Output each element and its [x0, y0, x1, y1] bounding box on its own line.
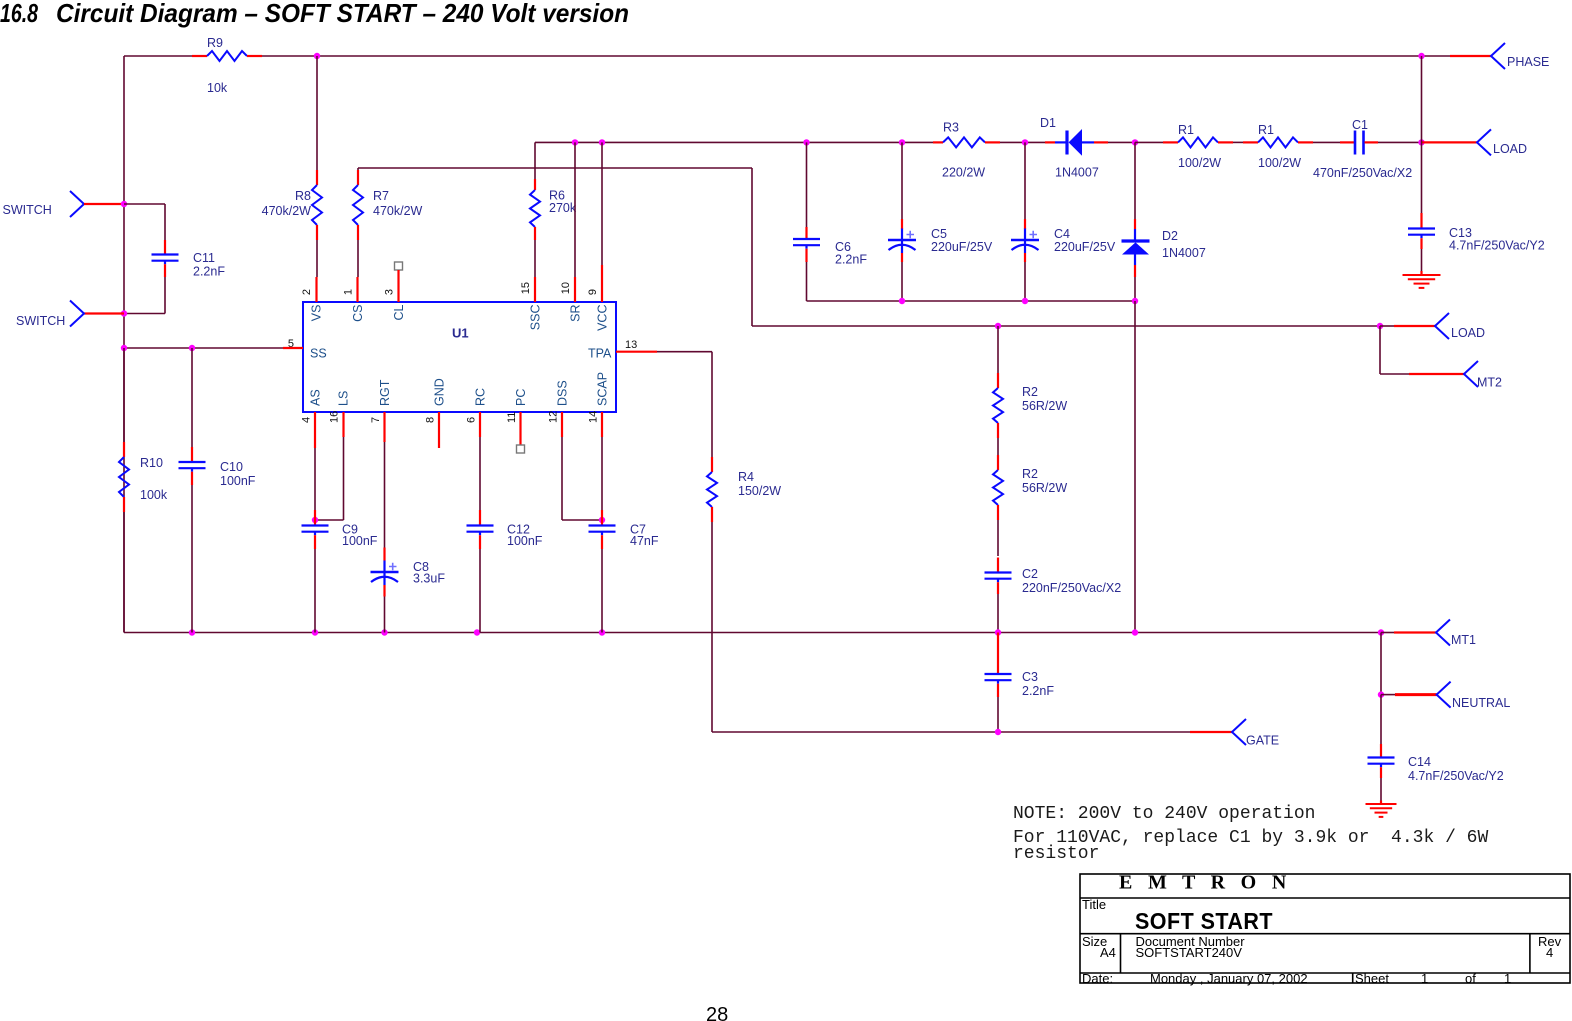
svg-text:15: 15	[520, 282, 532, 294]
U1 pin number 10	[560, 282, 572, 294]
svg-text:U1: U1	[452, 326, 469, 341]
svg-text:CS: CS	[351, 305, 365, 322]
svg-text:NOTE: 200V to 240V operation: NOTE: 200V to 240V operation	[1013, 804, 1315, 824]
svg-text:Circuit Diagram – SOFT START –: Circuit Diagram – SOFT START – 240 Volt …	[56, 0, 629, 28]
svg-text:VCC: VCC	[596, 305, 610, 331]
svg-text:150/2W: 150/2W	[738, 484, 781, 498]
svg-text:100/2W: 100/2W	[1258, 156, 1301, 170]
wire top bus R9 to PHASE corner	[262, 55, 1450, 57]
svg-text:3.3uF: 3.3uF	[413, 572, 445, 586]
title block sheet total 1	[1504, 971, 1511, 986]
title block Date label	[1082, 971, 1113, 986]
U1 pin number 3	[384, 289, 396, 295]
svg-text:100k: 100k	[140, 488, 168, 502]
port NEUTRAL	[1381, 682, 1510, 710]
diode D1	[1040, 116, 1135, 180]
svg-text:VS: VS	[310, 305, 324, 322]
port LOAD upper	[1422, 129, 1528, 156]
svg-text:R2: R2	[1022, 385, 1038, 399]
U1 pin number 5	[288, 338, 294, 350]
title block title SOFT START	[1135, 908, 1273, 934]
title block document number	[1136, 945, 1243, 960]
svg-text:56R/2W: 56R/2W	[1022, 481, 1067, 495]
wire U1 pin 14 SCAP	[601, 412, 603, 510]
capacitor C1	[1313, 118, 1422, 180]
wire MT2 branch	[1380, 326, 1409, 374]
port LOAD lower	[1380, 313, 1485, 340]
U1 pin name CS	[351, 305, 365, 322]
svg-text:2.2nF: 2.2nF	[193, 265, 225, 279]
U1 pin number 12	[548, 411, 560, 423]
U1 pin number 7	[370, 417, 382, 423]
node junction SR rail	[572, 139, 578, 145]
svg-text:1N4007: 1N4007	[1162, 246, 1206, 260]
capacitor C11	[152, 240, 226, 279]
node junction MT1 bus / C12	[474, 629, 480, 635]
U1 pin number 9	[587, 289, 599, 295]
wire switch upper to C11	[124, 204, 165, 240]
node junction bottom D2	[1132, 298, 1138, 304]
svg-text:R7: R7	[373, 189, 389, 203]
svg-text:R8: R8	[295, 189, 311, 203]
svg-text:8: 8	[425, 417, 437, 423]
node junction MT1 bus / C7	[599, 629, 605, 635]
node junction MT1 bus / C2 C3	[995, 629, 1001, 635]
wire R7 to U1 pin 1	[357, 240, 360, 302]
wire R3 to C4 node	[1000, 141, 1045, 143]
title block of label	[1465, 971, 1476, 986]
wire VCC rail	[535, 141, 933, 143]
title block rev 4	[1546, 945, 1553, 960]
title block date value	[1150, 971, 1308, 986]
svg-text:4.7nF/250Vac/Y2: 4.7nF/250Vac/Y2	[1449, 239, 1545, 253]
svg-text:Title: Title	[1082, 897, 1106, 912]
svg-text:RGT: RGT	[378, 379, 392, 406]
ground symbol at C13	[1403, 275, 1441, 288]
wire stub U1 pin 3	[397, 270, 399, 302]
svg-text:270k: 270k	[549, 201, 577, 215]
node junction AS LS	[312, 517, 318, 523]
svg-text:SSC: SSC	[529, 305, 543, 331]
node junction MT1 bus / C8	[381, 629, 387, 635]
svg-text:R9: R9	[207, 36, 223, 50]
wire capacitor group bottom bus	[807, 300, 1136, 302]
node junction switch upper / left rail	[121, 201, 127, 207]
svg-text:of: of	[1465, 971, 1476, 986]
svg-text:SS: SS	[310, 347, 327, 361]
svg-text:GND: GND	[433, 378, 447, 406]
capacitor C13	[1408, 213, 1545, 275]
svg-text:470nF/250Vac/X2: 470nF/250Vac/X2	[1313, 166, 1412, 180]
svg-text:C2: C2	[1022, 567, 1038, 581]
wire U1 pin 16 LS	[315, 412, 344, 520]
page title text	[0, 0, 629, 28]
node junction bottom C5	[899, 298, 905, 304]
svg-text:4.7nF/250Vac/Y2: 4.7nF/250Vac/Y2	[1408, 769, 1504, 783]
node junction rail / D2	[1132, 139, 1138, 145]
U1 pin name VCC	[596, 305, 610, 331]
wire top bus left of R9	[124, 55, 192, 57]
svg-text:220nF/250Vac/X2: 220nF/250Vac/X2	[1022, 581, 1121, 595]
U1 pin name GND	[433, 378, 447, 406]
node junction rail / C5	[899, 139, 905, 145]
svg-text:SOFT START: SOFT START	[1135, 908, 1273, 934]
U1 pin name TPA	[588, 347, 612, 361]
resistor R3	[933, 121, 1000, 180]
svg-text:Sheet: Sheet	[1355, 971, 1389, 986]
svg-text:470k/2W: 470k/2W	[373, 204, 423, 218]
U1 pin name AS	[309, 389, 323, 406]
U1 pin number 2	[301, 289, 313, 295]
svg-text:11: 11	[506, 412, 518, 423]
U1 pin name LS	[337, 391, 351, 406]
title block Document Number label	[1136, 934, 1246, 949]
port SWITCH lower	[16, 301, 124, 329]
node junction SS / left rail	[121, 345, 127, 351]
svg-text:6: 6	[466, 417, 478, 423]
title block Rev label	[1538, 934, 1562, 949]
svg-text:28: 28	[706, 1004, 728, 1021]
node junction LOAD rail / R2	[995, 323, 1001, 329]
svg-text:C4: C4	[1054, 227, 1070, 241]
U1 pin name SS	[310, 347, 327, 361]
wire top bus down to C13	[1421, 56, 1423, 213]
svg-text:4: 4	[1546, 945, 1553, 960]
svg-text:A4: A4	[1100, 945, 1116, 960]
U1 pin name RGT	[378, 379, 392, 406]
node junction MT1 bus / D2 branch	[1132, 629, 1138, 635]
wire U1 pin 12 DSS	[562, 412, 602, 520]
note text line 2	[1013, 828, 1488, 848]
wire R8 to U1 pin 2	[316, 240, 319, 302]
svg-text:1: 1	[343, 289, 355, 295]
capacitor C7	[589, 510, 659, 633]
svg-text:3: 3	[384, 289, 396, 295]
title block Sheet label	[1355, 971, 1389, 986]
svg-text:SWITCH: SWITCH	[16, 314, 65, 328]
node junction C1 / C13 branch	[1418, 139, 1424, 145]
resistor R9	[192, 36, 262, 95]
node junction LOAD rail / MT2 branch	[1377, 323, 1383, 329]
U1 pin name SCAP	[596, 372, 610, 406]
title block sheet 1	[1421, 971, 1428, 986]
port SWITCH upper	[3, 191, 125, 217]
wire vertical down to LOAD rail	[751, 168, 753, 326]
title block frame	[1080, 874, 1570, 983]
svg-text:LOAD: LOAD	[1493, 142, 1527, 156]
svg-text:R2: R2	[1022, 467, 1038, 481]
svg-text:1: 1	[1421, 971, 1428, 986]
U1 pin number 16	[329, 411, 341, 423]
wire MT1 node down to NEUTRAL	[1380, 633, 1382, 695]
diode D2	[1122, 142, 1206, 301]
wire SR to U1 pin 10	[574, 142, 576, 302]
svg-text:100nF: 100nF	[220, 474, 256, 488]
wire GATE rail	[712, 731, 1190, 733]
node junction MT1 bus / C10	[189, 629, 195, 635]
no-connect square CL pin 3	[395, 262, 403, 270]
svg-text:SR: SR	[569, 305, 583, 322]
svg-text:AS: AS	[309, 389, 323, 406]
svg-text:4: 4	[301, 417, 313, 423]
wire R7 top rail to VCC corner	[358, 167, 752, 169]
capacitor C12	[467, 510, 543, 633]
port MT2	[1409, 361, 1502, 390]
svg-text:10k: 10k	[207, 81, 228, 95]
svg-text:C1: C1	[1352, 118, 1368, 132]
title block size A4	[1100, 945, 1116, 960]
svg-text:220uF/25V: 220uF/25V	[1054, 240, 1116, 254]
svg-text:PHASE: PHASE	[1507, 55, 1549, 69]
svg-text:2.2nF: 2.2nF	[835, 253, 867, 267]
svg-text:LOAD: LOAD	[1451, 326, 1485, 340]
resistor R2 lower	[993, 438, 1067, 520]
svg-text:16.8: 16.8	[0, 0, 38, 28]
svg-text:resistor: resistor	[1013, 844, 1099, 864]
node junction top bus / C13 branch	[1418, 53, 1424, 59]
wire U1 pin 13 TPA	[616, 351, 712, 353]
svg-text:R1: R1	[1178, 123, 1194, 137]
node junction bottom C4	[1022, 298, 1028, 304]
svg-text:100/2W: 100/2W	[1178, 156, 1221, 170]
capacitor C6	[793, 142, 867, 301]
resistor R1 second	[1233, 123, 1313, 170]
svg-text:SCAP: SCAP	[596, 372, 610, 406]
svg-text:7: 7	[370, 417, 382, 423]
wire top bus to R8	[316, 56, 318, 170]
svg-text:Date:: Date:	[1082, 971, 1113, 986]
node junction MT1 bus / C9	[312, 629, 318, 635]
U1 pin number 13	[625, 339, 637, 351]
svg-text:56R/2W: 56R/2W	[1022, 399, 1067, 413]
wire U1 pin 7 RGT	[383, 412, 385, 548]
svg-text:220/2W: 220/2W	[942, 166, 985, 180]
svg-text:C10: C10	[220, 460, 243, 474]
wire U1 pin 6 RC	[479, 412, 481, 510]
svg-text:14: 14	[588, 411, 600, 423]
svg-text:E M T R O N: E M T R O N	[1119, 872, 1292, 894]
svg-text:10: 10	[560, 282, 572, 294]
svg-text:1: 1	[1504, 971, 1511, 986]
wire VCC to U1 pin 9	[601, 142, 603, 302]
svg-text:TPA: TPA	[588, 347, 612, 361]
svg-text:MT1: MT1	[1451, 633, 1476, 647]
wire C11 to switch lower	[124, 277, 165, 314]
svg-text:2: 2	[301, 289, 313, 295]
U1 pin name VS	[310, 305, 324, 322]
node junction MT1 bus / MT1 port	[1378, 629, 1384, 635]
port MT1	[1381, 620, 1476, 648]
svg-text:R4: R4	[738, 470, 754, 484]
U1 pin name DSS	[556, 380, 570, 406]
svg-text:R10: R10	[140, 456, 163, 470]
svg-text:100nF: 100nF	[342, 534, 378, 548]
svg-text:C11: C11	[193, 251, 215, 265]
svg-text:PC: PC	[514, 389, 528, 406]
svg-text:16: 16	[329, 411, 341, 423]
node junction switch lower / left rail	[121, 310, 127, 316]
wire VCC rail corner to R6	[534, 142, 536, 179]
svg-text:GATE: GATE	[1246, 734, 1279, 748]
node junction SS / C10	[189, 345, 195, 351]
svg-text:47nF: 47nF	[630, 534, 659, 548]
svg-text:C3: C3	[1022, 670, 1038, 684]
svg-text:C5: C5	[931, 227, 947, 241]
title block Title label	[1082, 897, 1106, 912]
node junction top bus / R8	[314, 53, 320, 59]
U1 pin number 6	[466, 417, 478, 423]
U1 pin number 14	[588, 411, 600, 423]
svg-text:12: 12	[548, 411, 560, 423]
svg-text:9: 9	[587, 289, 599, 295]
svg-text:CL: CL	[392, 304, 406, 320]
resistor R1 first	[1135, 123, 1233, 170]
node junction DSS SCAP	[599, 517, 605, 523]
node junction GATE rail / C3	[995, 729, 1001, 735]
U1 pin number 11	[506, 412, 518, 423]
svg-text:470k/2W: 470k/2W	[262, 204, 312, 218]
wire D2 node down to MT1 bus	[1134, 301, 1136, 633]
port PHASE	[1450, 43, 1549, 69]
capacitor C4	[1011, 142, 1116, 301]
svg-text:220uF/25V: 220uF/25V	[931, 240, 993, 254]
U1 pin name PC	[514, 389, 528, 406]
resistor R2 upper	[993, 326, 1067, 438]
svg-text:DSS: DSS	[556, 380, 570, 406]
node junction rail / C4	[1022, 139, 1028, 145]
resistor R7	[353, 168, 423, 240]
wire left vertical rail	[123, 56, 125, 633]
U1 pin number 8	[425, 417, 437, 423]
resistor R4	[707, 352, 781, 522]
capacitor C14	[1368, 695, 1504, 804]
page number	[706, 1004, 728, 1021]
note text line 3	[1013, 844, 1099, 864]
svg-text:MT2: MT2	[1477, 376, 1502, 390]
svg-text:1N4007: 1N4007	[1055, 166, 1099, 180]
no-connect square PC pin 11	[517, 445, 525, 453]
U1 pin name SSC	[529, 305, 543, 331]
svg-text:RC: RC	[474, 388, 488, 406]
capacitor C3	[985, 633, 1055, 733]
wire U1 pin 5 SS	[124, 347, 303, 349]
svg-text:LS: LS	[337, 391, 351, 406]
resistor R8	[262, 170, 322, 240]
svg-text:SOFTSTART240V: SOFTSTART240V	[1136, 945, 1243, 960]
op-amp U1 body	[303, 302, 616, 412]
resistor R6	[530, 179, 577, 240]
svg-text:R1: R1	[1258, 123, 1274, 137]
U1 pin number 4	[301, 417, 313, 423]
node junction NEUTRAL	[1378, 691, 1384, 697]
title block company name	[1119, 872, 1292, 894]
svg-text:Monday , January 07, 2002: Monday , January 07, 2002	[1150, 971, 1308, 986]
wire stub U1 pin 11 PC	[519, 412, 521, 445]
svg-text:2.2nF: 2.2nF	[1022, 684, 1054, 698]
U1 pin number 15	[520, 282, 532, 294]
svg-text:13: 13	[625, 339, 637, 351]
resistor R10	[119, 348, 168, 633]
svg-text:SWITCH: SWITCH	[3, 203, 52, 217]
svg-text:100nF: 100nF	[507, 534, 543, 548]
port GATE	[1190, 719, 1279, 748]
U1 pin name SR	[569, 305, 583, 322]
svg-text:D2: D2	[1162, 229, 1178, 243]
capacitor C9	[302, 510, 378, 633]
title block Size label	[1082, 934, 1107, 949]
wire stub U1 pin 8 GND	[438, 412, 440, 448]
capacitor C2	[985, 520, 1122, 633]
U1 pin name CL	[392, 304, 406, 320]
wire LOAD rail	[752, 325, 1380, 327]
node junction rail / C6	[803, 139, 809, 145]
node junction VCC rail	[599, 139, 605, 145]
wire MT1 bus	[124, 632, 1381, 634]
capacitor C5	[888, 142, 993, 301]
wire U1 pin 4 AS	[314, 412, 316, 510]
U1 pin number 1	[343, 289, 355, 295]
capacitor C10	[179, 348, 256, 633]
capacitor C8	[371, 548, 446, 633]
U1 pin name RC	[474, 388, 488, 406]
svg-text:R3: R3	[943, 121, 959, 135]
svg-text:C14: C14	[1408, 755, 1431, 769]
wire R4 to GATE rail	[711, 522, 713, 732]
svg-text:D1: D1	[1040, 116, 1056, 130]
svg-text:NEUTRAL: NEUTRAL	[1452, 696, 1510, 710]
note text line 1	[1013, 804, 1315, 824]
wire R6 to U1 pin 15	[534, 240, 536, 302]
ground symbol at C14	[1366, 804, 1397, 817]
